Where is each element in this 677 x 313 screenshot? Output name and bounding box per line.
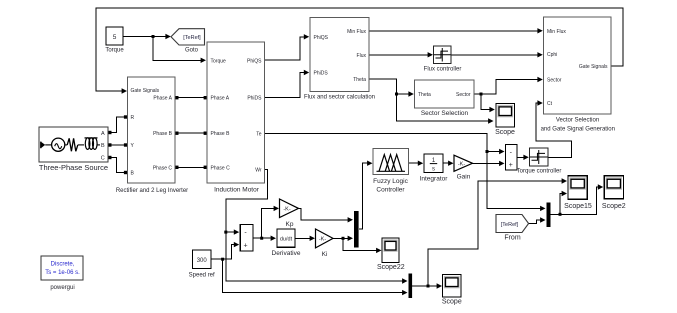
wire source B to Y (108, 144, 126, 146)
wire Theta output (369, 79, 492, 121)
svg-text:Cphi: Cphi (547, 52, 557, 58)
svg-text:Induction Motor: Induction Motor (214, 187, 260, 194)
node speed ref junction (221, 258, 224, 261)
svg-text:Torque: Torque (211, 58, 227, 64)
wire Min Flux to vector selection (369, 30, 541, 32)
svg-text:Phase A: Phase A (153, 96, 172, 102)
svg-text:Phase B: Phase B (153, 131, 173, 137)
svg-text:Vector Selection: Vector Selection (556, 118, 599, 124)
wire Ki output to mux (333, 237, 351, 239)
AC source symbol (52, 138, 65, 151)
node theta junction (395, 93, 398, 96)
vector selection and gate signal generation block (544, 17, 612, 114)
svg-text:Min Flux: Min Flux (547, 29, 566, 35)
wire source C to B (108, 158, 126, 173)
wire PhiQS motor to flux calc (265, 37, 308, 60)
wire Phase C rectifier to motor (176, 166, 206, 168)
wire Integrator to Gain (443, 162, 452, 164)
svg-text:-K-: -K- (458, 162, 466, 168)
svg-text:Sector: Sector (547, 78, 562, 84)
svg-text:Derivative: Derivative (272, 250, 301, 257)
node Te junction (486, 150, 489, 153)
wire mux15 output (551, 187, 602, 214)
wire PhiDS motor to flux calc (265, 73, 308, 98)
mux torque compare (547, 203, 551, 228)
svg-text:Rectifier and 2 Leg Inverter: Rectifier and 2 Leg Inverter (116, 188, 188, 194)
svg-text:Phase A: Phase A (211, 96, 230, 102)
svg-text:Torque: Torque (105, 48, 124, 54)
wire source A to R (108, 117, 126, 133)
scope block (496, 104, 515, 128)
powergui block (41, 256, 83, 280)
sector selection block (415, 80, 475, 108)
svg-text:Goto: Goto (185, 48, 199, 54)
constant Torque value 5 (106, 27, 123, 45)
svg-text:and Gate Signal Generation: and Gate Signal Generation (541, 127, 615, 133)
wire torque sum to torque controller (517, 156, 527, 158)
node torque-branch junction (152, 35, 155, 38)
svg-text:PhiDS: PhiDS (247, 96, 262, 102)
wire sector branch to Scope (481, 94, 493, 110)
svg-text:Scope: Scope (495, 129, 515, 136)
wire Sector output (474, 80, 541, 95)
derivative block (277, 229, 295, 247)
svg-text:Phase C: Phase C (211, 165, 231, 171)
wire speed sum output to Derivative (253, 237, 274, 239)
svg-text:powergui: powergui (50, 285, 74, 291)
svg-text:Fuzzy Logic: Fuzzy Logic (373, 178, 408, 185)
node sector junction (480, 93, 483, 96)
svg-text:Min Flux: Min Flux (347, 29, 366, 35)
svg-text:Phase B: Phase B (211, 131, 231, 137)
fuzzy logic controller block (373, 149, 409, 175)
wire speed ref branch to bottom mux (223, 259, 406, 292)
svg-text:-K-: -K- (319, 237, 327, 243)
wire Speed ref output (211, 245, 238, 260)
svg-text:+: + (244, 242, 248, 249)
wire Torque-to-Goto (123, 36, 170, 38)
svg-text:Scope22: Scope22 (377, 264, 405, 271)
svg-text:Sector Selection: Sector Selection (421, 110, 469, 117)
svg-text:B: B (101, 143, 105, 149)
sum block torque error (506, 145, 518, 171)
wire theta branch to Sector Selection (397, 93, 413, 95)
wire speed loop to Scope15 top input (428, 181, 566, 286)
wire Ki branch to Scope22 (343, 238, 380, 250)
scope2 block (604, 176, 623, 199)
svg-text:-K-: -K- (283, 207, 291, 213)
svg-text:Flux: Flux (357, 53, 367, 59)
svg-text:C: C (101, 155, 105, 161)
svg-text:PhiQS: PhiQS (247, 58, 262, 64)
svg-text:du/dt: du/dt (280, 237, 293, 243)
svg-text:Scope2: Scope2 (602, 203, 626, 210)
svg-text:Phase C: Phase C (153, 165, 173, 171)
sum block speed error (240, 225, 253, 252)
mux speed compare (409, 274, 413, 299)
svg-text:PhiDS: PhiDS (314, 71, 329, 77)
svg-text:Flux and sector calculation: Flux and sector calculation (304, 95, 375, 101)
integrator block (424, 154, 443, 173)
wire Te output (265, 134, 544, 209)
svg-text:PhiQS: PhiQS (314, 35, 329, 41)
svg-text:Theta: Theta (418, 92, 431, 98)
flux and sector calculation block (310, 18, 369, 92)
wire Wr branch to speed sum minus (226, 231, 238, 233)
svg-text:Kp: Kp (286, 221, 294, 228)
wire mux15 branch to Scope15 (560, 194, 566, 215)
wire torque controller to Ct input (536, 103, 572, 157)
svg-text:Scope: Scope (442, 299, 462, 306)
gain block (454, 155, 473, 171)
svg-text:R: R (131, 115, 135, 121)
wire Derivative to Ki (295, 237, 314, 239)
mux speed-error signals (354, 211, 359, 248)
svg-text:A: A (101, 131, 105, 137)
scope bottom block (443, 275, 462, 298)
wire Wr feedback (226, 169, 406, 281)
induction motor block (207, 42, 265, 183)
gain Kp (280, 199, 299, 218)
svg-text:Torque controller: Torque controller (517, 169, 562, 175)
wire branch to Kp (262, 208, 278, 238)
svg-text:Discrete,: Discrete, (51, 262, 75, 268)
wire Gain to torque sum plus (473, 162, 503, 164)
wire Torque-branch to Induction Motor Torque input (153, 37, 204, 61)
svg-text:s: s (432, 167, 435, 173)
gain Ki (316, 229, 334, 248)
node bottom mux branch junction (427, 285, 430, 288)
svg-text:[TeRef]: [TeRef] (183, 35, 201, 41)
svg-text:Te: Te (256, 132, 262, 138)
svg-text:Three-Phase Source: Three-Phase Source (39, 163, 108, 172)
svg-text:Ts = 1e-06 s.: Ts = 1e-06 s. (45, 270, 80, 276)
relay flux controller (434, 46, 452, 64)
node Ki branch junction (342, 237, 345, 240)
wire bottom mux to Scope (412, 285, 440, 287)
wire Gate Signals feedback loop (96, 8, 623, 91)
node Wr junction (224, 231, 227, 234)
svg-text:Speed ref: Speed ref (189, 273, 215, 279)
svg-text:Sector: Sector (456, 92, 471, 98)
svg-text:+: + (509, 162, 513, 169)
svg-text:Scope15: Scope15 (564, 203, 592, 210)
svg-text:Flux controller: Flux controller (424, 67, 462, 73)
three-phase source (39, 127, 108, 162)
svg-text:Gate Signals: Gate Signals (131, 88, 160, 94)
inductor symbol (85, 137, 98, 139)
svg-text:From: From (504, 235, 521, 242)
node speed error junction (260, 237, 263, 240)
wire Te branch to torque sum minus (487, 151, 503, 153)
svg-text:Wr: Wr (255, 167, 262, 173)
scope22 block (382, 238, 399, 263)
scope15 block (568, 176, 587, 199)
wire Phase B rectifier to motor (176, 132, 206, 134)
wire flux controller to Cphi (451, 54, 541, 56)
svg-text:Integrator: Integrator (420, 176, 449, 183)
svg-text:5: 5 (113, 34, 117, 41)
relay torque controller (530, 148, 549, 166)
svg-text:300: 300 (197, 258, 208, 264)
svg-text:Gate Signals: Gate Signals (579, 64, 608, 70)
svg-text:Theta: Theta (353, 77, 366, 83)
svg-text:[TeRef]: [TeRef] (501, 222, 519, 228)
wire From tag to mux15 (529, 220, 544, 224)
wire Kp output to mux (299, 208, 352, 219)
node mux15 branch junction (559, 213, 562, 216)
wire Flux to flux controller (369, 54, 432, 56)
wire FLC to Integrator (409, 162, 422, 164)
from tag TeRef (496, 215, 529, 233)
constant Speed ref 300 (193, 250, 212, 269)
svg-text:Controller: Controller (376, 187, 405, 194)
svg-text:Gain: Gain (457, 174, 471, 181)
resistor symbol (67, 138, 78, 151)
rectifier and 2 leg inverter block (128, 77, 176, 183)
wire Phase A rectifier to motor (176, 97, 206, 99)
wire central mux to FLC (359, 163, 371, 229)
goto tag TeRef (171, 29, 205, 45)
svg-text:Ki: Ki (322, 251, 328, 258)
svg-text:Ct: Ct (547, 101, 553, 107)
